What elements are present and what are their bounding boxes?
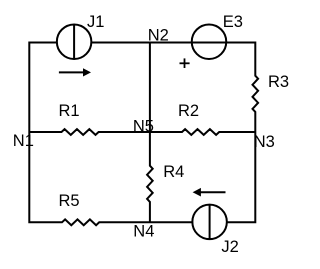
svg-text:R5: R5 bbox=[59, 192, 80, 210]
svg-text:R2: R2 bbox=[178, 102, 199, 120]
svg-text:R3: R3 bbox=[268, 73, 289, 91]
svg-text:R4: R4 bbox=[163, 163, 184, 181]
svg-text:N5: N5 bbox=[133, 117, 154, 135]
svg-text:N1: N1 bbox=[13, 132, 34, 150]
svg-text:J1: J1 bbox=[87, 13, 104, 31]
svg-text:R1: R1 bbox=[59, 102, 80, 120]
svg-text:N4: N4 bbox=[133, 223, 154, 241]
svg-text:N2: N2 bbox=[148, 26, 169, 44]
svg-text:N3: N3 bbox=[254, 133, 275, 151]
svg-text:E3: E3 bbox=[223, 13, 243, 31]
svg-text:J2: J2 bbox=[221, 238, 238, 256]
